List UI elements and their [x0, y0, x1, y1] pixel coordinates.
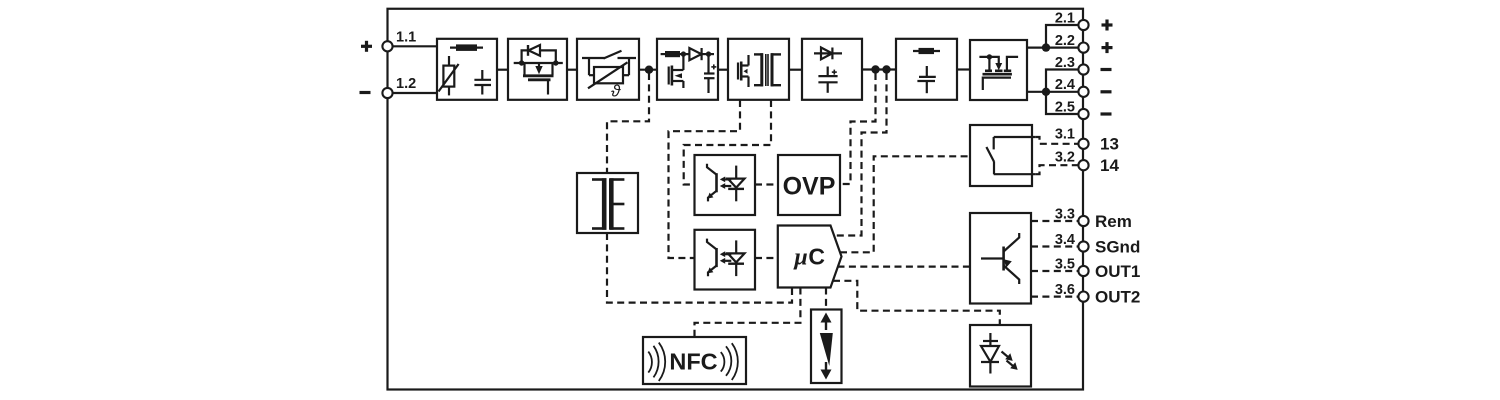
- transistor Q1 with body diode: [514, 45, 563, 95]
- inductor L2: [913, 48, 940, 54]
- svg-text:3.4: 3.4: [1055, 232, 1075, 248]
- wire microcontroller to output transistor: [838, 266, 971, 268]
- plus sign terminal 2.2: [1102, 42, 1113, 53]
- dashed control lines: [607, 73, 1079, 337]
- wire boost converter to isolation stage: [718, 69, 728, 71]
- wire optocoupler U1 to OVP: [755, 183, 778, 185]
- fuse F1: [450, 44, 483, 51]
- junction node D: [1042, 43, 1050, 51]
- junction node F: [681, 51, 686, 56]
- wire isolation stage to optocoupler U1: [684, 100, 771, 185]
- relay K1: [970, 125, 1035, 186]
- minus sign terminal 2.5: [1101, 112, 1112, 115]
- wire input filter to reverse protection: [497, 69, 508, 71]
- svg-text:1.2: 1.2: [396, 76, 416, 92]
- svg-text:2.2: 2.2: [1055, 33, 1075, 49]
- svg-text:14: 14: [1100, 156, 1119, 175]
- svg-text:2.3: 2.3: [1055, 55, 1075, 71]
- wire node A to aux transformer: [607, 73, 649, 173]
- wire relay to terminal 3.1: [1035, 137, 1078, 144]
- svg-text:Rem: Rem: [1095, 212, 1132, 231]
- wire aux transformer to microcontroller: [607, 233, 792, 303]
- wire output transistor to terminal 3.5: [1031, 270, 1079, 272]
- reverse polarity protection block: [508, 39, 567, 100]
- input filter block: [437, 39, 497, 100]
- wire 1.1 to input filter: [388, 45, 437, 47]
- output transistor block Q5: [970, 213, 1031, 304]
- wire output transistor to terminal 3.3: [1031, 220, 1079, 222]
- terminal 3.2: [1078, 160, 1088, 170]
- plus sign terminal 2.1: [1102, 20, 1113, 31]
- terminal 2.5: [1078, 109, 1088, 119]
- svg-text:3.1: 3.1: [1055, 127, 1075, 143]
- junction node A: [645, 66, 653, 74]
- svg-text:NFC: NFC: [669, 349, 717, 375]
- wire reverse protection to inrush limiter: [567, 69, 577, 71]
- capacitor C2: [704, 54, 716, 93]
- junction node E: [1042, 88, 1050, 96]
- svg-text:3.3: 3.3: [1055, 206, 1075, 222]
- optocoupler U2: [695, 230, 756, 290]
- terminal 1.1: [382, 41, 392, 51]
- svg-text:OUT1: OUT1: [1095, 262, 1140, 281]
- auxiliary transformer block T: [577, 173, 638, 233]
- svg-text:3.6: 3.6: [1055, 282, 1075, 298]
- wire relay to terminal 3.2: [1035, 165, 1078, 174]
- svg-text:SGnd: SGnd: [1095, 238, 1140, 257]
- microcontroller U3: [778, 226, 842, 288]
- capacitor C4: [917, 66, 935, 93]
- svg-text:2.1: 2.1: [1055, 10, 1075, 26]
- wire isolation stage to optocoupler U2: [669, 100, 741, 258]
- wire node B to OVP: [840, 73, 876, 184]
- wire microcontroller to LED indicator: [833, 281, 1000, 325]
- terminal 3.3: [1078, 216, 1088, 226]
- junction node B: [871, 65, 879, 73]
- output switch block: [970, 40, 1027, 100]
- svg-text:2.4: 2.4: [1055, 77, 1075, 93]
- plus sign input: [361, 41, 372, 52]
- wire output transistor to terminal 3.6: [1031, 296, 1079, 298]
- varistor RV1: [439, 56, 459, 95]
- boost converter block: [657, 39, 718, 100]
- wire isolation stage to rectifier: [789, 69, 802, 71]
- terminal 2.1: [1078, 20, 1088, 30]
- minus sign input: [360, 91, 371, 94]
- svg-text:2.5: 2.5: [1055, 99, 1075, 115]
- terminal 3.4: [1078, 241, 1088, 251]
- wire microcontroller to relay: [840, 156, 970, 252]
- terminal 1.2: [382, 88, 392, 98]
- wire branch to terminal 2.1: [1046, 25, 1079, 48]
- svg-text:OVP: OVP: [783, 172, 836, 200]
- junction node C: [882, 65, 890, 73]
- wire output transistor to terminal 3.4: [1031, 245, 1079, 247]
- wire 1.2 to input filter: [388, 92, 437, 94]
- isolation converter block: [728, 39, 789, 100]
- transformer TR1: [754, 53, 781, 86]
- svg-text:3.5: 3.5: [1055, 256, 1075, 272]
- capacitor C1: [474, 70, 491, 95]
- diode D1: [689, 48, 714, 60]
- transistor Q2: [669, 54, 684, 88]
- wire microcontroller to potentiometer: [825, 288, 827, 310]
- wire output filter to output switch: [957, 68, 970, 70]
- wire microcontroller to NFC: [695, 288, 801, 338]
- terminal 2.2: [1078, 43, 1088, 53]
- wire output switch to terminal 2.4: [1027, 91, 1079, 93]
- thermistor RT1: [588, 62, 629, 100]
- terminal 2.3: [1078, 64, 1088, 74]
- inrush current limiter block: [577, 39, 639, 100]
- inductor L1: [661, 51, 690, 57]
- wire branch to terminals 2.3 and 2.5: [1046, 70, 1079, 115]
- svg-text:1.1: 1.1: [396, 30, 416, 46]
- junction node G: [706, 51, 711, 56]
- svg-text:13: 13: [1100, 135, 1119, 154]
- output rectifier block: [802, 39, 862, 100]
- bypass switch S1: [582, 51, 636, 75]
- output filter block: [896, 39, 957, 100]
- minus sign terminal 2.4: [1101, 90, 1112, 93]
- outer frame: [388, 9, 1084, 390]
- svg-text:ϑ: ϑ: [611, 82, 621, 101]
- wire rectifier to output filter: [862, 68, 896, 70]
- wire output switch to terminal 2.2: [1027, 46, 1079, 48]
- terminal 3.1: [1078, 139, 1088, 149]
- optocoupler U1: [695, 155, 756, 215]
- overvoltage protection block OVP: [778, 155, 840, 215]
- LED indicator block: [970, 325, 1031, 387]
- terminal 3.5: [1078, 266, 1088, 276]
- wire inrush limiter to boost converter: [639, 69, 657, 71]
- transformer TR2: [592, 178, 624, 230]
- wire node C to microcontroller: [835, 73, 887, 236]
- minus sign terminal 2.3: [1101, 68, 1112, 71]
- potentiometer adjustment block: [811, 310, 842, 384]
- transistor Q4 dual mosfet: [979, 54, 1018, 90]
- transistor Q3: [738, 55, 749, 87]
- diode D2: [814, 48, 842, 60]
- svg-text:3.2: 3.2: [1055, 149, 1075, 165]
- NFC interface block: [643, 337, 746, 384]
- terminal 2.4: [1078, 87, 1088, 97]
- svg-text:µC: µC: [793, 244, 825, 271]
- wire optocoupler U2 to microcontroller: [755, 257, 778, 259]
- terminal 3.6: [1078, 292, 1088, 302]
- svg-text:OUT2: OUT2: [1095, 288, 1140, 307]
- capacitor C3: [818, 67, 837, 93]
